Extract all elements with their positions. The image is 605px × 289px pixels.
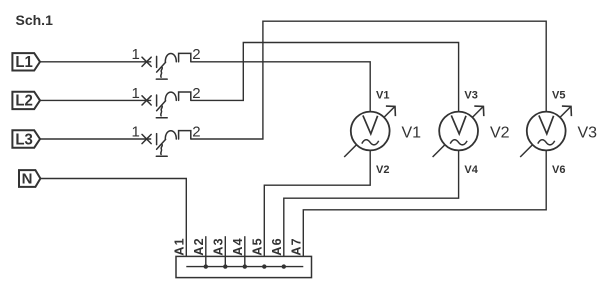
svg-text:A2: A2 (192, 237, 206, 255)
junction dot A5 (262, 264, 266, 268)
terminal L2 (12, 92, 40, 110)
terminal N (19, 170, 40, 188)
svg-text:A3: A3 (211, 237, 225, 255)
svg-text:A4: A4 (231, 237, 245, 255)
svg-text:V3: V3 (578, 124, 598, 141)
svg-text:V3: V3 (464, 90, 477, 102)
contact cross (142, 57, 151, 66)
wire voltmeter V1 bottom to connector pin A5 (264, 150, 370, 266)
svg-text:2: 2 (192, 123, 200, 140)
voltmeter U3 (V3) (520, 106, 571, 157)
magnetic release hump (165, 54, 176, 62)
meter circle (351, 112, 390, 151)
voltmeter U2 (V2) (433, 106, 484, 157)
terminal block X1 body (176, 256, 312, 277)
svg-text:Sch.1: Sch.1 (16, 12, 54, 28)
pin stub A3 (224, 236, 226, 266)
wire voltmeter V3 bottom to connector pin A7 (303, 150, 546, 266)
svg-text:2: 2 (192, 46, 200, 63)
arrow head (386, 106, 396, 116)
wire net N: terminal N to connector pin A1 (40, 179, 186, 267)
svg-text:1: 1 (131, 85, 139, 102)
thermal release hump (179, 53, 191, 61)
wire L2 terminal to breaker Q2 (40, 99, 151, 101)
junction dot A4 (243, 264, 247, 268)
junction dot A3 (223, 264, 227, 268)
wire net L3: breaker Q3 to voltmeter V3 top (191, 21, 546, 139)
voltmeter U1 (V1) (344, 106, 395, 157)
svg-text:V2: V2 (490, 124, 510, 141)
AC tilde (362, 140, 379, 145)
blade (157, 62, 166, 72)
wire net L2: breaker Q2 to voltmeter V2 top (191, 43, 459, 113)
svg-text:A1: A1 (172, 237, 186, 255)
wire L3 terminal to breaker Q3 (40, 138, 151, 140)
svg-text:2: 2 (192, 85, 200, 102)
terminal L3 (12, 130, 40, 148)
trip actuator glyph (156, 67, 167, 79)
svg-text:V6: V6 (552, 164, 565, 176)
svg-text:V4: V4 (464, 164, 478, 176)
fixed contact tick (156, 56, 158, 67)
junction dot A2 (204, 264, 208, 268)
svg-text:L1: L1 (15, 54, 33, 71)
pin stub A4 (244, 236, 246, 266)
svg-text:A6: A6 (270, 237, 284, 255)
svg-text:V1: V1 (376, 90, 389, 102)
terminal L1 (12, 53, 40, 71)
V glyph (363, 115, 378, 133)
svg-text:1: 1 (131, 46, 139, 63)
svg-text:1: 1 (131, 123, 139, 140)
svg-text:A5: A5 (250, 237, 264, 255)
wire voltmeter V2 bottom to connector pin A6 (284, 150, 459, 266)
svg-text:A7: A7 (289, 237, 303, 255)
svg-text:V2: V2 (376, 164, 389, 176)
breaker Q3 (142, 131, 191, 157)
pointer arrow line (344, 106, 395, 157)
svg-text:L2: L2 (15, 93, 33, 110)
terminal block bus wire (186, 266, 303, 268)
svg-text:N: N (22, 171, 33, 188)
svg-text:V5: V5 (552, 90, 565, 102)
svg-text:V1: V1 (402, 124, 422, 141)
pin stub A2 (205, 236, 207, 266)
wire net L1: breaker Q1 to voltmeter V1 top (191, 62, 370, 112)
junction dot A6 (282, 264, 286, 268)
breaker Q2 (142, 92, 191, 118)
wire L1 terminal to breaker Q1 (40, 61, 151, 63)
breaker Q1 (142, 53, 191, 79)
svg-text:L3: L3 (15, 131, 33, 148)
